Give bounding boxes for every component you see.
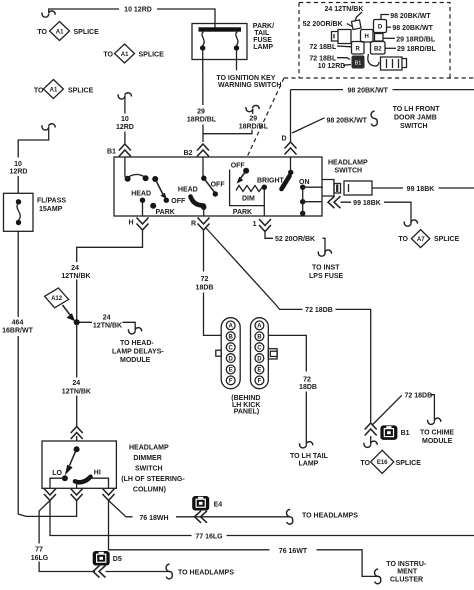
svg-text:18DB: 18DB xyxy=(299,384,317,391)
svg-text:SWITCH: SWITCH xyxy=(135,466,163,473)
label 24 12TN/BK (upper) xyxy=(61,265,90,280)
svg-text:A: A xyxy=(229,324,234,330)
splice A1 (second) xyxy=(103,44,164,63)
svg-text:76 16WT: 76 16WT xyxy=(279,548,308,555)
headlamp dimmer switch box xyxy=(42,441,116,488)
svg-text:LO: LO xyxy=(52,470,62,477)
terminal H arrow xyxy=(128,218,148,231)
label TO LH TAIL LAMP xyxy=(290,453,329,468)
splice A1 (third) xyxy=(34,80,94,99)
svg-text:COLUMN): COLUMN) xyxy=(133,487,166,494)
svg-text:24: 24 xyxy=(71,265,79,272)
svg-text:BRIGHT: BRIGHT xyxy=(257,177,285,184)
svg-text:72: 72 xyxy=(303,377,311,384)
connector plug at switch right edge xyxy=(323,180,373,197)
switch section ON (dome lamp) xyxy=(282,157,324,216)
svg-text:29 18RD/BL: 29 18RD/BL xyxy=(397,46,437,53)
terminal D arrow xyxy=(282,136,297,155)
svg-text:H: H xyxy=(128,220,133,227)
label TO CHIME MODULE xyxy=(420,429,454,445)
label 24 12TN/BK (lower) xyxy=(62,380,91,396)
svg-text:TO INST: TO INST xyxy=(312,265,340,272)
connector D5 icon xyxy=(93,551,122,566)
svg-text:29: 29 xyxy=(249,116,257,123)
svg-text:TO IGNITION KEY: TO IGNITION KEY xyxy=(216,75,275,82)
dashed bottom edge xyxy=(284,77,474,79)
label 77 16LG (vertical run) xyxy=(31,547,49,562)
svg-text:HEAD: HEAD xyxy=(178,186,198,193)
svg-text:98 20BK/WT: 98 20BK/WT xyxy=(392,25,433,32)
wire 24 12TN/BK (A12 junction to dimmer) xyxy=(76,325,78,441)
svg-text:A1: A1 xyxy=(121,52,129,58)
svg-text:TO HEADLAMPS: TO HEADLAMPS xyxy=(178,570,234,577)
svg-text:R: R xyxy=(191,221,196,228)
svg-text:E4: E4 xyxy=(214,502,223,509)
svg-text:12TN/BK: 12TN/BK xyxy=(93,323,122,330)
wire 29 18RD/BL (fuse right leg to ign key warning sw) xyxy=(236,50,238,70)
label HEADLAMP SWITCH xyxy=(328,160,368,175)
svg-text:D5: D5 xyxy=(113,556,122,563)
terminal R arrow xyxy=(191,218,210,231)
svg-text:98 20BK/WT: 98 20BK/WT xyxy=(327,118,368,125)
label 29 18RD/BL (B2 drop) xyxy=(187,109,217,124)
svg-text:B: B xyxy=(229,335,234,341)
svg-text:B1: B1 xyxy=(107,149,116,156)
svg-text:FL/PASS: FL/PASS xyxy=(37,198,66,205)
svg-text:MODULE: MODULE xyxy=(120,357,151,364)
fuse FL/PASS 15AMP xyxy=(4,193,34,231)
svg-text:TAIL: TAIL xyxy=(254,30,270,37)
svg-text:MENT: MENT xyxy=(397,568,418,575)
svg-text:OFF: OFF xyxy=(231,163,246,170)
svg-text:HEAD: HEAD xyxy=(131,191,151,198)
svg-text:HI: HI xyxy=(94,470,101,477)
svg-text:16LG: 16LG xyxy=(31,555,49,562)
svg-text:1: 1 xyxy=(253,221,257,228)
svg-text:99 18BK: 99 18BK xyxy=(353,200,381,207)
svg-text:99 18BK: 99 18BK xyxy=(407,186,435,193)
label 98 20BK/WT pin D (upper) xyxy=(381,13,431,20)
switch section B1: wiper and contacts xyxy=(125,157,169,203)
svg-text:HEADLAMP: HEADLAMP xyxy=(328,160,368,167)
svg-text:18DB: 18DB xyxy=(196,285,214,292)
connector body shapes xyxy=(332,20,407,70)
wire stub 10 12RD to FL/PASS fuse xyxy=(10,124,56,194)
svg-text:24 12TN/BK: 24 12TN/BK xyxy=(325,6,364,13)
svg-text:12RD: 12RD xyxy=(116,124,134,131)
label 464 16BR/WT xyxy=(2,320,33,335)
label 72 18DB (R drop) xyxy=(196,276,214,292)
svg-text:24: 24 xyxy=(103,314,111,321)
svg-text:77 16LG: 77 16LG xyxy=(195,534,223,541)
connector C1 detail box (dashed) xyxy=(299,3,450,79)
svg-text:TO HEADLAMPS: TO HEADLAMPS xyxy=(302,513,358,520)
splice E16 xyxy=(360,450,421,473)
dimmer output arrow LO-left xyxy=(44,489,56,501)
svg-text:10: 10 xyxy=(14,161,22,168)
pin R cavity xyxy=(352,42,365,55)
svg-text:CLUSTER: CLUSTER xyxy=(390,577,423,584)
svg-text:77: 77 xyxy=(35,547,43,554)
hook to headlamps (right) xyxy=(286,509,358,524)
svg-text:10: 10 xyxy=(121,116,129,123)
label 72 18DB (tail lamp drop) xyxy=(299,377,317,392)
svg-text:72 18BL: 72 18BL xyxy=(309,56,337,63)
svg-text:12TN/BK: 12TN/BK xyxy=(62,389,91,396)
wire branch 98 20BK/WT to door jamb xyxy=(292,111,377,133)
svg-text:18RD/BL: 18RD/BL xyxy=(187,117,217,124)
svg-text:24: 24 xyxy=(72,380,80,387)
svg-text:SPLICE: SPLICE xyxy=(74,29,100,36)
svg-text:10 12RD: 10 12RD xyxy=(318,63,346,70)
connector B1 icon xyxy=(380,425,409,440)
connector arrow on 76 18WH wire xyxy=(195,511,208,523)
svg-text:TO LH TAIL: TO LH TAIL xyxy=(290,453,329,460)
svg-text:D: D xyxy=(229,356,234,362)
connector E4 icon xyxy=(192,496,222,511)
node A12 junction xyxy=(74,319,80,325)
svg-text:A12: A12 xyxy=(51,296,63,302)
svg-text:12TN/BK: 12TN/BK xyxy=(61,273,90,280)
svg-text:SPLICE: SPLICE xyxy=(68,88,94,95)
wire branch 24 12TN/BK to headlamp delays module xyxy=(79,314,141,334)
label 29 18RD/BL (upper) xyxy=(384,36,436,43)
svg-text:H: H xyxy=(365,34,369,40)
svg-text:DIM: DIM xyxy=(242,196,255,203)
wire 76 18WH (HI diagonal to headlamps) xyxy=(109,501,291,517)
svg-text:OFF: OFF xyxy=(211,181,226,188)
svg-text:HEADLAMP: HEADLAMP xyxy=(129,445,169,452)
svg-text:E: E xyxy=(229,368,233,374)
label TO LH FRONT DOOR JAMB SWITCH xyxy=(393,106,441,130)
splice A12 xyxy=(45,288,76,321)
svg-text:52 20OR/BK: 52 20OR/BK xyxy=(303,21,343,28)
svg-text:TO: TO xyxy=(103,52,113,59)
svg-text:TO HEAD-: TO HEAD- xyxy=(120,340,154,347)
svg-text:E: E xyxy=(257,368,261,374)
terminal 1 arrow xyxy=(253,219,271,232)
svg-text:F: F xyxy=(258,379,262,385)
svg-text:52 20OR/BK: 52 20OR/BK xyxy=(275,236,315,243)
svg-text:TO INSTRU-: TO INSTRU- xyxy=(386,561,427,568)
svg-text:SWITCH: SWITCH xyxy=(335,168,363,175)
svg-text:98 20BK/WT: 98 20BK/WT xyxy=(390,13,431,20)
svg-text:B: B xyxy=(257,335,262,341)
svg-text:TO LH FRONT: TO LH FRONT xyxy=(393,106,441,113)
kick panel connector (right half) xyxy=(251,318,278,389)
svg-text:TO: TO xyxy=(37,29,47,36)
connector B1 arrow (up) xyxy=(365,423,377,436)
svg-text:A: A xyxy=(257,324,262,330)
wire 77 16LG (LO straight down to long horizontal) xyxy=(50,501,474,536)
svg-text:16BR/WT: 16BR/WT xyxy=(2,328,33,335)
svg-text:A7: A7 xyxy=(417,237,425,243)
wire stub 10 12RD w/ pigtail (to B1) xyxy=(116,93,134,144)
wire 72 18DB (kick panel to LH tail lamp) xyxy=(269,335,307,444)
hook to LH tail lamp xyxy=(299,442,312,448)
switch section DIM/BRIGHT xyxy=(230,163,265,206)
svg-text:C: C xyxy=(229,345,234,351)
svg-text:TO CHIME: TO CHIME xyxy=(420,429,454,436)
connector arrow (99 18BK lower) xyxy=(328,196,341,208)
label 29 18RD/BL (lower) xyxy=(386,46,437,53)
label TO HEADLAMP DELAYS-MODULE xyxy=(112,340,164,364)
svg-text:72: 72 xyxy=(201,276,209,283)
svg-text:SPLICE: SPLICE xyxy=(434,236,460,243)
svg-text:A1: A1 xyxy=(56,29,64,35)
svg-text:MODULE: MODULE xyxy=(422,438,453,445)
svg-text:76 18WH: 76 18WH xyxy=(139,515,168,522)
hook to E16 splice xyxy=(370,436,372,444)
wire to headlamps (bottom-left) xyxy=(106,564,235,579)
label 72 18BL (lower, pin B1) xyxy=(309,56,350,63)
wire 77 16LG (LO diagonal to bottom-left headlamps) xyxy=(39,501,95,572)
label 98 20BK/WT pin D (lower) xyxy=(386,25,433,32)
svg-text:98 20BK/WT: 98 20BK/WT xyxy=(347,88,388,95)
label 10 12RD (connector view) xyxy=(318,63,351,70)
label 52 20OR/BK (connector view) xyxy=(303,21,352,28)
kick panel connector (left half) xyxy=(216,318,240,389)
switch section B2: wiper and contacts xyxy=(191,157,219,216)
wire 98 20BK/WT (long horizontal) xyxy=(291,89,474,91)
hook to instrument cluster xyxy=(374,569,380,584)
terminal B2 arrow xyxy=(184,144,210,157)
label TO INSTRUMENT CLUSTER xyxy=(386,561,427,584)
contact BRIGHT w/ wire to 1 xyxy=(262,185,267,217)
label 72 18BL (upper, pin R) xyxy=(309,44,351,51)
wire 99 18BK (lower) to A7 xyxy=(341,200,418,226)
label 24 12TN/BK (connector view) xyxy=(325,6,364,21)
svg-text:D: D xyxy=(378,24,383,30)
svg-text:TO: TO xyxy=(34,88,44,95)
wire 99 18BK (upper) xyxy=(372,187,474,189)
fuse PARK/TAIL FUSE LAMP xyxy=(192,24,247,60)
dimmer output arrow center xyxy=(71,489,83,501)
wire 76 16WT (HI to instrument cluster) xyxy=(109,501,379,577)
svg-text:DOOR JAMB: DOOR JAMB xyxy=(394,115,437,122)
svg-text:LAMP DELAYS-: LAMP DELAYS- xyxy=(112,349,164,356)
wire 98 20BK/WT (D drop from long wire) xyxy=(290,90,292,142)
svg-text:F: F xyxy=(229,379,233,385)
connector arrow on bottom headlamp wire xyxy=(93,566,106,578)
svg-text:10 12RD: 10 12RD xyxy=(124,7,152,14)
svg-text:29 18RD/BL: 29 18RD/BL xyxy=(396,36,436,43)
wire 52 20OR/BK (terminal 1 to inst lps fuse) xyxy=(265,232,331,257)
svg-text:LPS FUSE: LPS FUSE xyxy=(309,273,344,280)
svg-text:TO: TO xyxy=(360,460,370,467)
label PARK/TAIL FUSE LAMP xyxy=(253,23,274,51)
svg-text:R: R xyxy=(356,46,361,52)
svg-text:29: 29 xyxy=(197,109,205,116)
label TO INST LPS FUSE xyxy=(309,265,344,280)
terminal B1 arrow xyxy=(107,144,131,157)
label TO IGNITION KEY WARNING SWITCH xyxy=(216,75,281,89)
svg-text:18RD/BL: 18RD/BL xyxy=(239,124,269,131)
pin D cavity xyxy=(374,20,387,33)
label FL/PASS 15AMP xyxy=(37,198,66,213)
svg-text:B1: B1 xyxy=(401,430,410,437)
wire 29 18RD/BL (fuse left leg to B2) xyxy=(202,50,204,142)
label (BEHIND LH KICK PANEL) xyxy=(231,395,260,416)
svg-text:A1: A1 xyxy=(50,87,58,93)
svg-text:PANEL): PANEL) xyxy=(234,409,260,416)
svg-text:15AMP: 15AMP xyxy=(39,206,63,213)
svg-text:C: C xyxy=(257,345,262,351)
svg-text:72 18DB: 72 18DB xyxy=(305,307,333,314)
svg-text:TO: TO xyxy=(398,236,408,243)
contact PARK (section B1) xyxy=(150,203,156,209)
splice A7 xyxy=(398,230,459,248)
wire 24 12TN/BK (H to A12 junction) xyxy=(77,230,143,320)
svg-text:SPLICE: SPLICE xyxy=(139,52,165,59)
dimmer input connector arrow xyxy=(71,427,83,440)
svg-text:(LH OF STEERING-: (LH OF STEERING- xyxy=(121,476,185,483)
pin H cavity xyxy=(361,30,374,43)
splice A1 (first) xyxy=(37,22,99,41)
svg-text:LAMP: LAMP xyxy=(299,461,319,468)
dimmer output arrow HI-right xyxy=(103,489,115,501)
svg-text:E16: E16 xyxy=(377,460,388,466)
svg-text:B1: B1 xyxy=(355,61,362,67)
pin B1 cavity (dark) xyxy=(352,56,365,69)
svg-text:B2: B2 xyxy=(184,150,193,157)
svg-text:72 18DB: 72 18DB xyxy=(405,393,433,400)
headlamp switch box xyxy=(114,157,322,216)
svg-text:LAMP: LAMP xyxy=(253,44,273,51)
wire 72 18DB (R down to kick panel connector) xyxy=(204,230,222,335)
svg-text:OFF: OFF xyxy=(171,198,186,205)
label HEADLAMP DIMMER SWITCH (LH OF STEERING-COLUMN) xyxy=(121,445,185,494)
svg-text:FUSE: FUSE xyxy=(253,37,272,44)
wire 464 16BR/WT (FL/PASS fuse to dimmer) xyxy=(18,231,26,516)
svg-text:PARK: PARK xyxy=(233,209,252,216)
svg-text:D: D xyxy=(257,356,262,362)
svg-text:D: D xyxy=(282,136,287,143)
wire stub 29 18RD/BL w/ pigtail (to B2) xyxy=(203,105,269,133)
wire 72 18DB (R diagonal to B1 connector) xyxy=(206,228,371,423)
dimmer switch internals xyxy=(50,446,109,488)
dashed leader to headlamp switch xyxy=(247,78,284,157)
wire 10 12RD (battery feed, top) xyxy=(42,9,215,28)
svg-text:B2: B2 xyxy=(374,46,382,52)
svg-text:72 18BL: 72 18BL xyxy=(309,44,337,51)
svg-text:SPLICE: SPLICE xyxy=(396,460,422,467)
svg-text:464: 464 xyxy=(12,320,24,327)
pin B2 cavity xyxy=(371,42,386,55)
svg-text:12RD: 12RD xyxy=(10,169,28,176)
wire branch 72 18DB to chime module xyxy=(373,393,441,425)
svg-text:DIMMER: DIMMER xyxy=(133,455,161,462)
wire dimmer common jumper xyxy=(26,501,77,517)
svg-text:WARNING SWITCH: WARNING SWITCH xyxy=(218,82,281,89)
contact HEAD w/ wire to H xyxy=(140,198,145,217)
svg-text:PARK: PARK xyxy=(156,209,175,216)
svg-text:SWITCH: SWITCH xyxy=(400,123,428,130)
